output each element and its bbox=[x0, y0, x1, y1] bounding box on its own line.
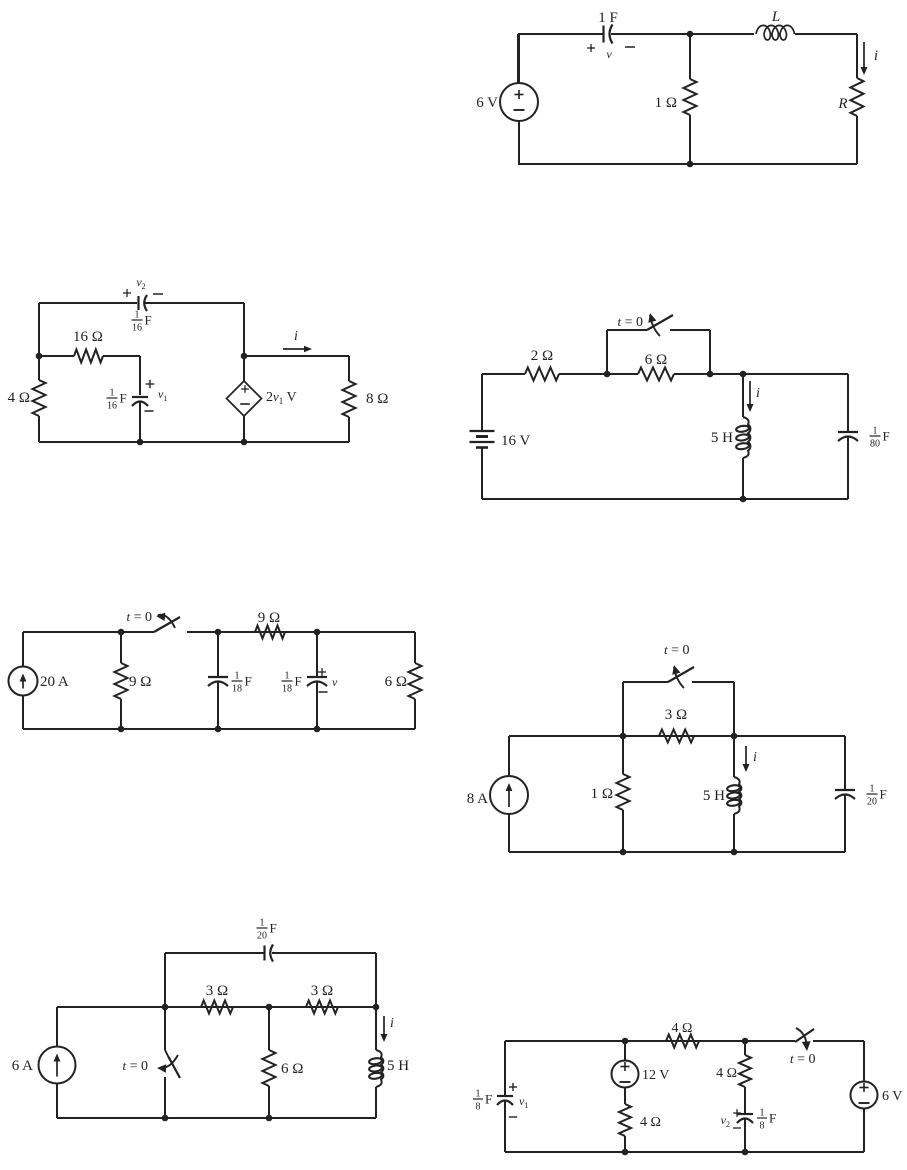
wire: C1 top-mid segment bbox=[611, 33, 754, 35]
wire: C3 top right bbox=[674, 373, 848, 375]
resistor 16 ohm bbox=[39, 355, 74, 357]
svg-text:8: 8 bbox=[760, 1121, 765, 1132]
wire: C1 top-right segment bbox=[795, 33, 857, 35]
node dot C3 n2 bbox=[707, 371, 714, 378]
switch bypass wire right bbox=[670, 329, 710, 331]
node dots C7 bottom bbox=[622, 1149, 629, 1156]
svg-text:8: 8 bbox=[476, 1102, 481, 1113]
wire: C3 top bbox=[482, 373, 525, 375]
svg-text:18: 18 bbox=[232, 684, 242, 695]
current arrow i bbox=[863, 42, 865, 69]
resistor 9 ohm vertical bbox=[120, 632, 122, 663]
node dots C6 main bbox=[162, 1004, 169, 1011]
capacitor 1/8 F v2 bbox=[737, 1113, 753, 1115]
svg-text:F: F bbox=[270, 921, 277, 936]
svg-text:v2: v2 bbox=[136, 275, 145, 291]
capacitor v1 1/16 F bbox=[132, 396, 148, 398]
label 1/8 F v1 bbox=[473, 1098, 483, 1100]
voltage source 6 V bbox=[500, 83, 538, 121]
switch arc arrowhead C5 bbox=[674, 667, 684, 688]
resistor 1 ohm C5 bbox=[622, 736, 624, 774]
node dots C5 bottom bbox=[620, 849, 627, 856]
voltage source 6 V bbox=[863, 1041, 865, 1082]
svg-text:9 Ω: 9 Ω bbox=[129, 674, 151, 690]
wire: C4 top left bbox=[23, 631, 154, 633]
svg-text:F: F bbox=[880, 787, 887, 802]
node dot C3 n1 bbox=[604, 371, 611, 378]
switch C7 arc arrowhead bbox=[796, 1028, 807, 1047]
capacitor 1/20 F C6 bbox=[263, 946, 265, 961]
wire: diamond leads bbox=[243, 356, 245, 381]
switch arc with arrowhead bbox=[650, 315, 660, 336]
inductor 5 H C6 bbox=[375, 1007, 377, 1050]
wire: C2 dep-source branch top bbox=[243, 303, 245, 356]
svg-text:16 V: 16 V bbox=[501, 433, 530, 449]
dependent source 2v1 V diamond bbox=[227, 381, 262, 416]
switch bypass C5 left bbox=[622, 682, 624, 736]
svg-text:20 A: 20 A bbox=[40, 674, 69, 690]
node dot C3 inductor bottom bbox=[740, 496, 747, 503]
node dots C7 top bbox=[622, 1038, 629, 1045]
svg-text:F: F bbox=[883, 429, 890, 444]
inductor 5 H branch bbox=[742, 374, 744, 417]
svg-text:6 Ω: 6 Ω bbox=[385, 674, 407, 690]
node dots C4 bottom bbox=[118, 726, 125, 733]
svg-text:v1: v1 bbox=[519, 1094, 528, 1110]
svg-text:L: L bbox=[771, 9, 780, 25]
current arrow i C3 bbox=[749, 381, 751, 406]
node dot C2 left-mid bbox=[36, 353, 43, 360]
svg-text:5 H: 5 H bbox=[703, 788, 725, 804]
label + - for v2 bbox=[123, 292, 131, 294]
wire: C4 bottom bbox=[23, 728, 415, 730]
svg-text:1: 1 bbox=[870, 784, 875, 795]
label 1/16 F below cap bbox=[132, 319, 143, 321]
capacitor 1/8 F v1 bbox=[504, 1041, 506, 1096]
svg-text:2 Ω: 2 Ω bbox=[531, 348, 553, 364]
wire: C2 top bbox=[39, 302, 137, 304]
wire: v1 cap to bottom bbox=[139, 402, 141, 443]
svg-text:6 V: 6 V bbox=[476, 95, 498, 111]
resistor 4 ohm top C7 bbox=[666, 1035, 699, 1048]
svg-text:1: 1 bbox=[873, 426, 878, 437]
resistor 6 ohm bbox=[638, 368, 674, 381]
label + v1 - bbox=[146, 383, 154, 385]
svg-text:t = 0: t = 0 bbox=[664, 642, 690, 658]
voltage source 12 V bbox=[624, 1041, 626, 1061]
svg-text:F: F bbox=[245, 674, 252, 689]
svg-text:F: F bbox=[485, 1092, 492, 1107]
label + v - for capacitor bbox=[587, 47, 595, 49]
switch bypass wire left bbox=[606, 330, 608, 374]
node dot C4 b3 top bbox=[314, 629, 321, 636]
svg-text:1: 1 bbox=[285, 671, 290, 682]
svg-text:16: 16 bbox=[132, 323, 142, 334]
capacitor 1/18 F first bbox=[217, 632, 219, 677]
svg-text:F: F bbox=[145, 313, 152, 328]
wire: C1 right-bottom bbox=[856, 116, 858, 164]
label 1/18 F second bbox=[282, 680, 293, 682]
switch t=0 blade bbox=[647, 315, 673, 330]
switch arc arrowhead C4 bbox=[158, 615, 175, 628]
current source 8 A bbox=[490, 776, 528, 814]
current arrow i C6 bbox=[383, 1016, 385, 1036]
wire: v1 branch bbox=[139, 356, 141, 395]
svg-text:5 H: 5 H bbox=[387, 1058, 409, 1074]
resistor 4 ohm below 12V bbox=[619, 1104, 631, 1136]
inductor 5 H C5 bbox=[733, 736, 735, 777]
inductor L bbox=[756, 25, 795, 40]
svg-text:1: 1 bbox=[110, 388, 115, 399]
current source 20 A bbox=[9, 667, 38, 696]
label 1/16 F left of v1 cap bbox=[107, 397, 118, 399]
switch t=0 blade C5 bbox=[668, 667, 694, 682]
svg-text:8 Ω: 8 Ω bbox=[366, 391, 388, 407]
node dots C5 top bbox=[620, 733, 627, 740]
node dot C1 bottom bbox=[687, 161, 694, 168]
svg-text:6 Ω: 6 Ω bbox=[281, 1061, 303, 1077]
switch vertical C6 bbox=[164, 1007, 166, 1050]
wire: C1 source leads bbox=[518, 34, 520, 83]
svg-text:v: v bbox=[332, 675, 338, 689]
switch C7 blade bbox=[795, 1029, 814, 1042]
svg-text:v2: v2 bbox=[721, 1113, 730, 1129]
svg-text:20: 20 bbox=[257, 931, 267, 942]
wire: C1 top-left segment bbox=[518, 33, 603, 35]
wire: C6 cap bypass bbox=[164, 953, 166, 1007]
label + v1 - bbox=[509, 1086, 517, 1088]
svg-text:i: i bbox=[294, 329, 298, 344]
svg-text:6 V: 6 V bbox=[882, 1089, 902, 1104]
node dots C6 bottom bbox=[162, 1115, 169, 1122]
label 1/18 F first bbox=[232, 680, 243, 682]
resistor 9 ohm horizontal bbox=[218, 631, 255, 633]
label 1/80 F bbox=[870, 435, 881, 437]
svg-text:1: 1 bbox=[235, 671, 240, 682]
svg-text:t = 0: t = 0 bbox=[122, 1058, 148, 1074]
resistor 1 ohm bbox=[689, 34, 691, 79]
resistor 6 ohm C4 bbox=[414, 632, 416, 663]
resistor 3 ohm C5 bbox=[659, 730, 694, 743]
node dot dep-source top bbox=[241, 353, 248, 360]
wire: branch2 mid bbox=[744, 1087, 746, 1114]
svg-text:3 Ω: 3 Ω bbox=[206, 983, 228, 999]
svg-text:4 Ω: 4 Ω bbox=[8, 390, 30, 406]
svg-text:i: i bbox=[753, 750, 757, 765]
label 1/8 F v2 bbox=[757, 1117, 767, 1119]
wire: C6 bottom bbox=[57, 1117, 376, 1119]
current source 6 A bbox=[39, 1047, 76, 1084]
resistor 4 ohm bbox=[38, 356, 40, 380]
svg-text:6 Ω: 6 Ω bbox=[645, 352, 667, 368]
svg-text:R: R bbox=[837, 96, 847, 112]
capacitor 1 F bbox=[602, 26, 604, 43]
resistor 3 ohm first C6 bbox=[201, 1001, 233, 1014]
svg-text:1: 1 bbox=[760, 1108, 765, 1119]
svg-text:4 Ω: 4 Ω bbox=[672, 1021, 693, 1036]
svg-text:F: F bbox=[295, 674, 302, 689]
svg-text:5 H: 5 H bbox=[711, 430, 733, 446]
svg-text:8 A: 8 A bbox=[467, 791, 488, 807]
resistor 2 ohm bbox=[525, 368, 559, 381]
svg-text:1 Ω: 1 Ω bbox=[591, 786, 613, 802]
capacitor 1/20 F C5 bbox=[844, 736, 846, 790]
wire: C3 top mid bbox=[559, 373, 638, 375]
current arrow i C5 bbox=[745, 746, 747, 766]
svg-text:t = 0: t = 0 bbox=[790, 1051, 816, 1067]
wire: C1 bottom bbox=[518, 163, 857, 165]
svg-text:16: 16 bbox=[107, 401, 117, 412]
svg-text:12 V: 12 V bbox=[642, 1068, 669, 1083]
capacitor 1/80 F bbox=[847, 374, 849, 432]
svg-text:t = 0: t = 0 bbox=[126, 609, 152, 625]
svg-text:1: 1 bbox=[476, 1089, 481, 1100]
resistor R bbox=[851, 78, 864, 116]
node dot C4 b2 top bbox=[215, 629, 222, 636]
wire: C2 bottom bbox=[39, 441, 349, 443]
wire: C5 bottom bbox=[509, 851, 845, 853]
svg-text:i: i bbox=[390, 1016, 394, 1031]
svg-text:2v1 V: 2v1 V bbox=[266, 389, 297, 406]
battery 16 V bbox=[481, 374, 483, 431]
svg-text:v: v bbox=[606, 47, 612, 61]
label + v - bbox=[318, 671, 326, 673]
resistor 3 ohm second C6 bbox=[306, 1001, 338, 1014]
wire: C7 bottom bbox=[505, 1151, 864, 1153]
svg-text:3 Ω: 3 Ω bbox=[665, 707, 687, 723]
resistor 4 ohm C7 branch2 bbox=[744, 1041, 746, 1055]
svg-text:v1: v1 bbox=[158, 387, 167, 403]
label 1/20 F C5 bbox=[867, 793, 878, 795]
wire: C2 mid to 8ohm bbox=[244, 355, 349, 357]
svg-text:3 Ω: 3 Ω bbox=[311, 983, 333, 999]
svg-text:18: 18 bbox=[282, 684, 292, 695]
wire: C5 top bbox=[509, 735, 845, 737]
node dot v1 bottom bbox=[137, 439, 144, 446]
svg-text:20: 20 bbox=[867, 797, 877, 808]
wire: C6 main bbox=[57, 1006, 376, 1008]
svg-text:9 Ω: 9 Ω bbox=[258, 610, 280, 626]
resistor 8 ohm bbox=[348, 356, 350, 381]
node dot C3 inductor top bbox=[740, 371, 747, 378]
svg-text:4 Ω: 4 Ω bbox=[716, 1066, 737, 1081]
svg-text:1: 1 bbox=[260, 918, 265, 929]
svg-text:t = 0: t = 0 bbox=[617, 314, 643, 330]
svg-text:1 F: 1 F bbox=[598, 10, 618, 26]
svg-text:1 Ω: 1 Ω bbox=[655, 95, 677, 111]
svg-text:1: 1 bbox=[135, 310, 140, 321]
node dot C1 top bbox=[687, 31, 694, 38]
svg-text:4 Ω: 4 Ω bbox=[640, 1115, 661, 1130]
label 1/20 F C6 bbox=[257, 927, 268, 929]
wire: C7 top bbox=[505, 1040, 795, 1042]
svg-text:F: F bbox=[769, 1111, 776, 1126]
node dot diamond bottom bbox=[241, 439, 248, 446]
capacitor v2 1/16 F bbox=[137, 296, 139, 310]
svg-text:i: i bbox=[874, 48, 878, 64]
svg-text:80: 80 bbox=[870, 439, 880, 450]
svg-text:F: F bbox=[120, 391, 127, 406]
switch t=0 blade C4 bbox=[154, 617, 180, 632]
node dot C4 b1 top bbox=[118, 629, 125, 636]
capacitor 1/18 F second with v bbox=[316, 632, 318, 677]
svg-text:16 Ω: 16 Ω bbox=[73, 329, 103, 345]
wire: C4 top right bbox=[187, 631, 415, 633]
svg-text:6 A: 6 A bbox=[12, 1058, 33, 1074]
svg-text:i: i bbox=[756, 386, 760, 401]
current arrow i C2 bbox=[283, 348, 306, 350]
resistor 6 ohm C6 bbox=[268, 1007, 270, 1050]
wire: C3 bottom bbox=[482, 498, 848, 500]
switch bypass C5 right bbox=[692, 681, 734, 683]
